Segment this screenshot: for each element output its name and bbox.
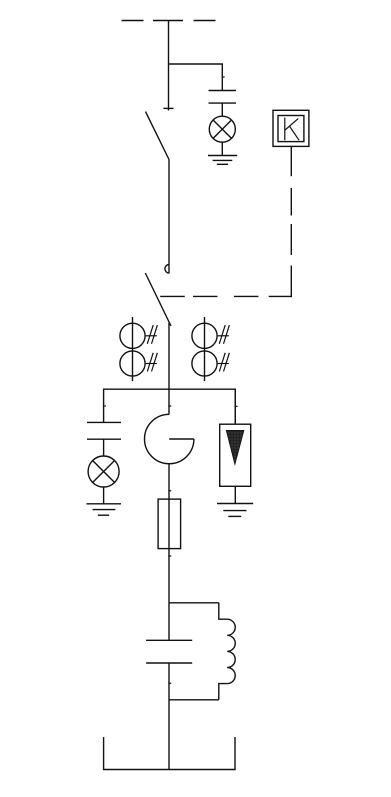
- current transformer TA2: [192, 323, 217, 376]
- wire: C1 to lamp HL1: [221, 103, 223, 116]
- ground E3: [217, 504, 253, 517]
- disconnector QS1 blade: [146, 112, 170, 160]
- wire: branch to capacitor C1: [169, 64, 223, 91]
- letter K: [285, 118, 299, 141]
- ground E1: [208, 156, 237, 165]
- ground E2: [86, 504, 121, 515]
- current transformer TA1 primary wire: [132, 317, 134, 381]
- wire: C2 to lamp HL2: [103, 439, 105, 456]
- current transformer TA1: [120, 323, 145, 376]
- TA2 secondary marks: [218, 325, 230, 371]
- disconnector QS1 fixed contact tick: [163, 107, 173, 109]
- capacitor C1: [209, 91, 237, 104]
- lamp HL1: [209, 116, 235, 142]
- switch QL hook contact: [165, 265, 169, 274]
- reactor L1: [219, 603, 235, 700]
- LC bottom junction wire: [169, 699, 219, 701]
- dashed control link (horizontal to switch): [160, 295, 292, 297]
- wire: HL2 to ground: [103, 487, 105, 504]
- wire: C3 to bottom terminal: [168, 663, 170, 770]
- dashed control link (vertical from K): [290, 146, 292, 297]
- bottom terminal bracket: [104, 737, 235, 770]
- node tick on main wire: [168, 405, 171, 407]
- TA1 secondary marks: [146, 325, 158, 371]
- capacitor C2: [87, 422, 121, 439]
- wire: bar to arrester: [234, 389, 236, 424]
- breaker QF (3/4 circle symbol): [145, 414, 194, 463]
- node tick above fuse: [168, 490, 171, 492]
- wire: QS1 to switch QL: [168, 160, 170, 274]
- node tick: branch junction: [222, 76, 225, 78]
- busbar (dashed): [122, 20, 216, 22]
- LC top junction wire: [169, 602, 219, 604]
- node tick left branch: [103, 405, 106, 407]
- capacitor C3: [146, 640, 192, 663]
- surge arrester F1: [220, 424, 251, 486]
- wire: bus to disconnector: [168, 21, 170, 111]
- wire: through fuse to LC filter: [168, 499, 170, 640]
- node tick below C3: [168, 682, 171, 684]
- lamp HL2: [88, 456, 119, 487]
- wire: breaker to fuse: [168, 464, 170, 499]
- fuse FU: [158, 499, 181, 548]
- switch QL blade: [145, 273, 171, 326]
- current transformer TA2 primary wire: [204, 317, 206, 381]
- wire: HL1 to ground: [221, 142, 223, 155]
- wire: QL to breaker: [168, 323, 170, 415]
- node tick right branch: [235, 405, 238, 407]
- relay K box: [273, 110, 309, 146]
- node tick below fuse: [168, 555, 171, 557]
- wire: arrester to ground: [234, 486, 236, 503]
- junction bar with branch drops: [104, 389, 236, 424]
